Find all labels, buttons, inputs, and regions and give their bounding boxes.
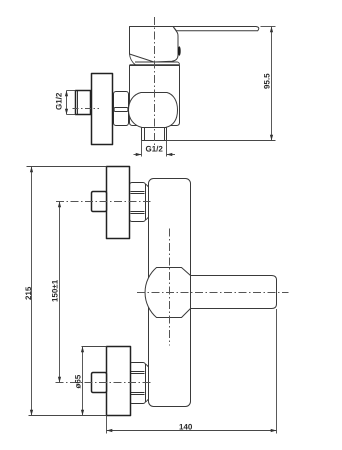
bottom hex nut [130,363,146,404]
dimension 140 (bottom) [107,309,277,434]
main body slab [149,179,191,407]
sphere body [129,93,178,128]
bottom wall flange [107,347,131,416]
bottom inlet axis centerline [56,382,151,384]
top wall pipe [92,192,107,212]
vertical centerline of body [169,229,171,346]
ball + lever silhouette [145,268,276,318]
label 150±1 rotated [52,280,58,301]
dimension ø65 [82,347,107,416]
valve body slab [130,65,180,126]
nut-to-body fillets (bottom connector) [146,364,149,402]
inlet axis centerline [73,108,100,110]
wall flange (escutcheon) [92,74,113,145]
dimension 150±1 (inner) [59,202,61,383]
outlet stub G1/2 [142,128,167,141]
cartridge collar rim [135,62,180,65]
top wall flange [107,167,130,239]
label 140 [180,424,193,430]
dimension 95.5 (right) [167,27,276,141]
label 95.5 rotated [264,74,270,89]
lever handle blade [173,27,259,31]
body right edge over lever [190,276,192,309]
handle cap body [130,27,179,66]
label ø65 rotated [75,375,81,389]
ball/lever horizontal centerline [137,292,289,294]
hex nut (side view) [114,92,129,126]
label G1/2 rotated [56,93,62,110]
nut-to-body fillets (top connector) [146,184,149,220]
label 215 rotated [25,287,31,300]
handle indicator dot (dark oval) [178,46,181,56]
wall pipe connector [76,91,91,115]
dimension G1/2 (bottom outlet) [134,141,176,157]
top inlet axis centerline [56,201,151,203]
label G1/2 bottom [146,146,163,152]
dimension G1/2 (left pipe) [67,91,76,115]
dimension 215 (left outer) [27,167,107,416]
top hex nut [130,183,146,222]
centerline vertical (valve axis) [154,17,156,145]
bottom wall pipe [92,373,107,393]
